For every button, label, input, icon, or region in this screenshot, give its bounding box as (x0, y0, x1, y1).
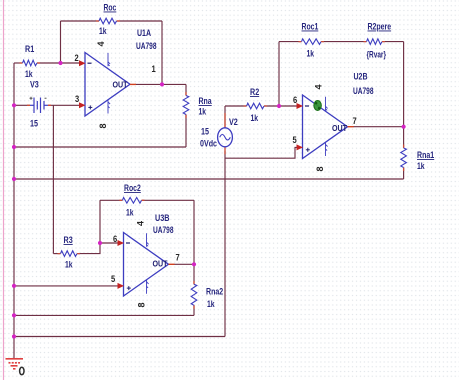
junction R3/Roc2 node (98, 241, 102, 245)
wire V2 to R2 (225, 105, 247, 107)
svg-text:UA798: UA798 (153, 225, 174, 235)
wire Roc feedback left leg (60, 21, 62, 63)
resistor Roc1 (302, 39, 322, 45)
wire Rna bottom stub (185, 115, 187, 148)
junction rail/bus2 (12, 177, 16, 181)
junction rail/bus1 (12, 145, 16, 149)
pin stubs V3 (27, 104, 51, 106)
wire Roc top left (61, 20, 100, 22)
wire Rna top stub (185, 84, 187, 95)
battery V3 (30, 98, 48, 114)
svg-text:1k: 1k (99, 26, 107, 36)
svg-text:V3: V3 (30, 80, 39, 90)
svg-text:4: 4 (136, 221, 146, 226)
svg-text:15: 15 (201, 127, 209, 137)
op-amp U3B (124, 233, 169, 297)
pin stubs Rna2 (193, 281, 195, 309)
wire Roc2 feedback right leg (193, 200, 195, 264)
wire Roc2 top right (142, 199, 195, 201)
U2B power pin 4 stub (326, 97, 328, 111)
svg-text:1k: 1k (251, 113, 259, 123)
wire U1A output to Rna (135, 83, 186, 85)
resistor R3 (61, 251, 78, 257)
svg-text:U2B: U2B (354, 72, 368, 82)
svg-text:UA798: UA798 (353, 86, 374, 96)
U2B plus mark (306, 148, 310, 152)
wire R2 to U2B pin6 (264, 105, 297, 107)
wire Roc feedback right leg (161, 21, 163, 84)
svg-text:5: 5 (111, 274, 115, 284)
wire Roc1 to R2pere (321, 41, 367, 43)
wire ground rail left vertical (13, 63, 15, 358)
U2B minus mark (305, 105, 309, 107)
svg-text:15: 15 (30, 119, 38, 129)
pin stubs Roc (96, 20, 120, 22)
svg-text:4: 4 (314, 84, 324, 89)
wire Rna1 top stub (403, 127, 405, 148)
wire R2pere to corner (382, 41, 404, 43)
svg-text:8: 8 (315, 166, 325, 171)
wire bus rail to U3B pin5 (14, 285, 118, 287)
U1A power pin 4 stub (108, 53, 110, 66)
svg-text:Roc: Roc (104, 3, 117, 13)
junction R1/Roc node (58, 61, 62, 65)
wire R1 to U1A pin2 (37, 62, 80, 64)
resistor Rna (183, 96, 189, 115)
svg-text:1k: 1k (25, 69, 33, 79)
U2B output stub (348, 126, 354, 128)
svg-text:R1: R1 (25, 44, 34, 54)
junction U2B output node (402, 125, 406, 129)
U1A output stub (130, 83, 136, 85)
wire Roc1 feedback left leg (278, 42, 280, 106)
svg-text:OUT: OUT (153, 259, 169, 269)
svg-text:6: 6 (113, 234, 117, 244)
U3B output stub (169, 263, 175, 265)
wire V3 to U1A pin3 (48, 104, 80, 106)
junction U1A output node (160, 82, 164, 86)
wire Roc top right (117, 20, 163, 22)
junction R2/Roc1 node (277, 104, 281, 108)
svg-text:UA798: UA798 (136, 41, 157, 51)
U1A plus mark (88, 105, 92, 109)
svg-text:OUT: OUT (332, 123, 348, 133)
pin stubs Roc2 (119, 199, 144, 201)
svg-text:1k: 1k (417, 161, 425, 171)
svg-text:7: 7 (176, 253, 180, 263)
wire feedback right leg to U2B output (403, 42, 405, 127)
svg-text:5: 5 (293, 135, 297, 145)
wire V2 top stub (224, 106, 226, 128)
wire V3 node down to R3 (52, 105, 54, 253)
resistor R2 (247, 103, 264, 109)
svg-text:U1A: U1A (137, 28, 151, 38)
ground (6, 359, 24, 369)
wire R3 right up to node (77, 200, 100, 253)
svg-text:1k: 1k (307, 49, 315, 59)
source V2 (218, 128, 233, 147)
resistor R1 (23, 60, 38, 66)
wire to R3 left (53, 253, 60, 255)
svg-text:R2pere: R2pere (368, 22, 392, 32)
U3B power pin 8 stub (147, 280, 149, 294)
U1A power pin 8 stub (108, 100, 110, 113)
svg-text:2: 2 (75, 53, 79, 63)
U3B pin6 arrow (118, 240, 125, 246)
svg-text:Roc2: Roc2 (124, 183, 141, 193)
pin stubs R1 (20, 62, 41, 64)
resistor Roc (99, 18, 116, 24)
resistor Roc2 (122, 198, 141, 204)
U3B plus mark (127, 286, 131, 290)
svg-text:1k: 1k (207, 299, 215, 309)
svg-text:0Vdc: 0Vdc (200, 139, 217, 149)
svg-text:Roc1: Roc1 (302, 22, 319, 32)
pin stubs Rna (185, 92, 187, 118)
op-amp U2B (303, 95, 348, 159)
resistor Rna2 (191, 284, 197, 305)
wire bus rail to V2 bottom (14, 336, 225, 338)
resistor Rna1 (401, 148, 407, 168)
U2B power pin 8 stub (326, 143, 328, 156)
svg-text:1k: 1k (65, 260, 73, 270)
wire top row to Roc1 (279, 41, 302, 43)
wire rail to V3 (14, 104, 30, 106)
pin stubs V2 (224, 113, 226, 154)
wire Rna2 top stub (193, 264, 195, 284)
svg-text:V2: V2 (229, 117, 238, 127)
U3B minus mark (126, 242, 130, 244)
svg-text:Rna2: Rna2 (206, 287, 223, 297)
pin stubs R2 (244, 105, 267, 107)
svg-text:Rna1: Rna1 (417, 150, 434, 160)
junction rail/V2 bus (12, 334, 16, 338)
svg-text:{Rvar}: {Rvar} (367, 50, 387, 60)
wire V2 bottom vertical (224, 151, 226, 337)
svg-text:6: 6 (293, 95, 297, 105)
junction rail/pin5 bus (12, 284, 16, 288)
probe marker on U2B (314, 101, 321, 111)
battery V3 polarity marks (30, 97, 47, 100)
U3B pin5 arrow (118, 283, 125, 289)
op-amp U1A (85, 53, 130, 117)
svg-text:U3B: U3B (155, 213, 170, 223)
U1A pin2 arrow (79, 60, 86, 66)
svg-text:OUT: OUT (113, 80, 129, 90)
svg-text:R2: R2 (250, 87, 259, 97)
junction rail/Rna2 bus (12, 313, 16, 317)
resistor R2pere (367, 39, 382, 45)
U2B pin5 arrow (297, 144, 304, 150)
wire bus rail to Rna1 bottom (14, 178, 404, 180)
pin stubs Rna1 (403, 145, 405, 172)
junction U3B output node (192, 262, 196, 266)
svg-text:7: 7 (353, 116, 357, 126)
pin stubs Roc1 (299, 41, 325, 43)
U3B power pin 4 stub (147, 233, 149, 247)
pin stubs R3 (58, 253, 81, 255)
wire node to U3B pin6 (100, 242, 118, 244)
wire bus Rna2 bottom to rail (14, 314, 194, 316)
svg-text:1k: 1k (126, 208, 134, 218)
wire bus Rna bottom to rail (14, 146, 186, 148)
svg-text:4: 4 (96, 41, 106, 46)
wire U3B output (174, 263, 194, 265)
U1A minus mark (88, 62, 92, 64)
wire Rna1 bottom stub (403, 168, 405, 180)
wire Rna2 bottom stub (193, 305, 195, 315)
page border line (3, 0, 5, 380)
U2B pin6 arrow (297, 103, 304, 109)
svg-text:R3: R3 (64, 235, 73, 245)
svg-text:8: 8 (98, 123, 108, 128)
wire Roc2 top left (100, 199, 122, 201)
wire rail to R1 left (14, 62, 23, 64)
node 0 label (20, 367, 24, 375)
wire V2 minus to U2B pin5 (225, 147, 297, 158)
svg-text:Rna: Rna (199, 96, 213, 106)
svg-text:1k: 1k (199, 107, 207, 117)
svg-text:3: 3 (75, 94, 79, 104)
svg-text:1: 1 (152, 64, 156, 74)
pin stubs R2pere (364, 41, 386, 43)
svg-text:8: 8 (137, 302, 147, 307)
wire U2B output to Rna1 (353, 126, 404, 128)
junction rail/V3 (12, 103, 16, 107)
U1A pin3 arrow (79, 102, 86, 108)
